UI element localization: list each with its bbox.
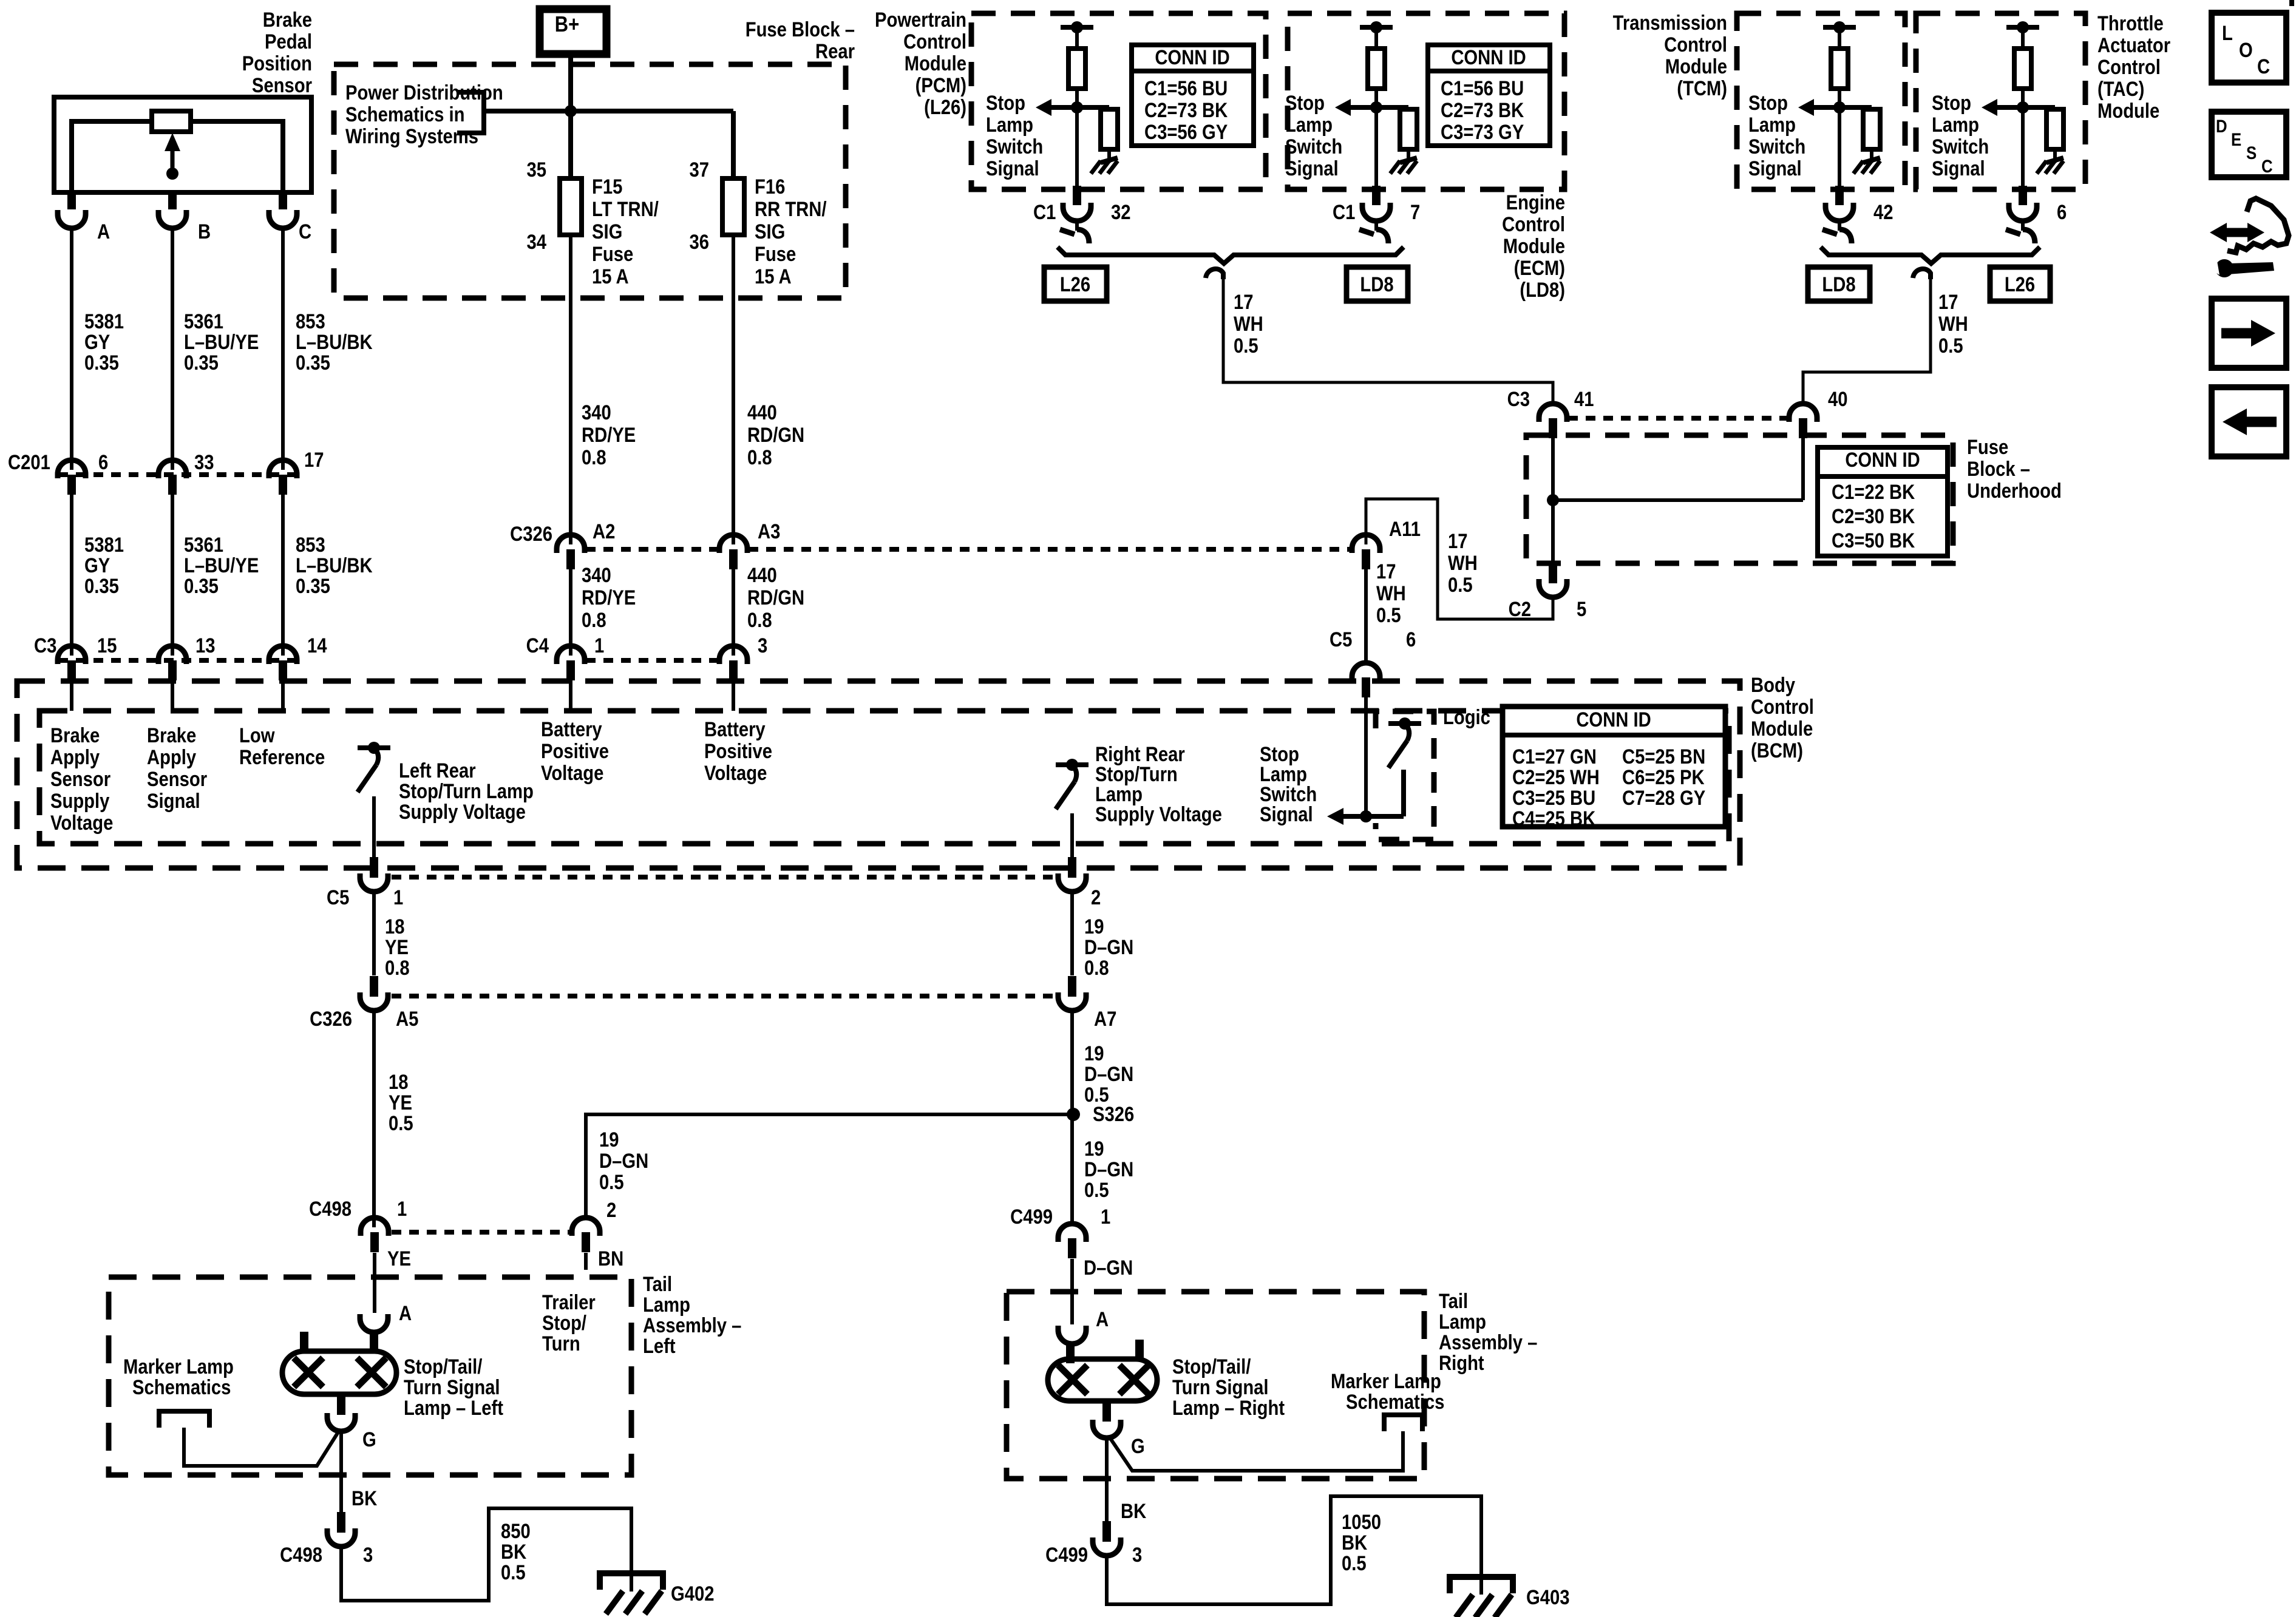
wire YE <box>373 1253 376 1313</box>
marker lamp bracket left <box>159 1411 209 1428</box>
wire 19 D-GN 0.8 <box>1070 890 1074 975</box>
svg-text:2: 2 <box>1091 886 1101 909</box>
svg-text:35: 35 <box>526 158 546 181</box>
PCM dashed box <box>971 13 1266 189</box>
svg-text:Lamp: Lamp <box>1748 113 1796 137</box>
svg-text:C499: C499 <box>1045 1543 1088 1567</box>
svg-text:Voltage: Voltage <box>541 761 603 785</box>
wire 18 YE 0.5 <box>372 1009 376 1227</box>
svg-text:L–BU/YE: L–BU/YE <box>184 330 259 354</box>
svg-text:Left Rear: Left Rear <box>399 759 476 782</box>
svg-text:Sensor: Sensor <box>50 767 110 791</box>
svg-text:Lamp – Right: Lamp – Right <box>1172 1396 1285 1420</box>
svg-text:18: 18 <box>385 915 405 938</box>
svg-text:(TAC): (TAC) <box>2097 77 2144 101</box>
svg-text:Rear: Rear <box>815 39 855 63</box>
wire to C2 pin5 <box>1551 500 1555 564</box>
svg-text:C326: C326 <box>310 1007 352 1031</box>
BCM right switch lead <box>1070 813 1074 858</box>
BCM inner dashed box <box>39 711 1729 844</box>
svg-text:CONN ID: CONN ID <box>1451 46 1526 69</box>
svg-text:19: 19 <box>1084 1137 1104 1161</box>
svg-text:853: 853 <box>296 533 325 557</box>
svg-text:Control: Control <box>1664 33 1727 56</box>
svg-text:17: 17 <box>1448 529 1468 553</box>
svg-text:C3=56 GY: C3=56 GY <box>1144 120 1228 144</box>
BCM outer dashed box <box>17 681 1740 868</box>
svg-text:Apply: Apply <box>50 745 100 769</box>
svg-text:Stop/Tail/: Stop/Tail/ <box>1172 1355 1251 1378</box>
svg-text:B+: B+ <box>555 13 579 37</box>
right arrow icon box <box>2212 299 2286 368</box>
fuse block rear dashed box <box>334 64 846 298</box>
svg-text:Signal: Signal <box>1932 157 1985 180</box>
svg-text:BK: BK <box>501 1540 526 1564</box>
svg-text:Fuse Block –: Fuse Block – <box>746 18 855 41</box>
svg-text:Reference: Reference <box>239 745 325 769</box>
svg-text:3: 3 <box>363 1543 373 1567</box>
splice S326 <box>1067 1108 1080 1121</box>
svg-text:Assembly –: Assembly – <box>1439 1331 1537 1354</box>
svg-text:7: 7 <box>1410 200 1420 224</box>
C326 pin A3 connector <box>719 535 747 553</box>
svg-text:5361: 5361 <box>184 533 223 557</box>
svg-text:Module: Module <box>1665 55 1727 78</box>
svg-text:Position: Position <box>242 52 312 75</box>
BCM left rear lamp driver switch <box>358 745 390 750</box>
svg-text:32: 32 <box>1111 200 1131 224</box>
svg-text:Throttle: Throttle <box>2097 12 2164 35</box>
tail lamp assembly right dashed box <box>1007 1292 1424 1479</box>
svg-text:C498: C498 <box>280 1543 322 1567</box>
lamp A cup right <box>1058 1326 1086 1344</box>
svg-text:440: 440 <box>747 563 777 587</box>
svg-text:C3: C3 <box>34 634 56 657</box>
svg-text:Fuse: Fuse <box>592 242 633 266</box>
svg-text:Engine: Engine <box>1506 191 1565 214</box>
svg-text:L26: L26 <box>2005 273 2035 296</box>
svg-text:Positive: Positive <box>704 739 772 763</box>
svg-text:A: A <box>97 220 110 243</box>
svg-text:C7=28 GY: C7=28 GY <box>1622 786 1705 810</box>
wire 5381 lower <box>70 495 73 656</box>
wire D-GN <box>1070 1259 1074 1324</box>
svg-text:5381: 5381 <box>84 310 124 333</box>
svg-text:36: 36 <box>689 230 709 254</box>
svg-text:A: A <box>399 1301 412 1325</box>
svg-text:Brake: Brake <box>263 8 312 32</box>
C3 pin 15 connector <box>58 646 86 664</box>
svg-text:C6=25 PK: C6=25 PK <box>1622 765 1705 789</box>
svg-text:L: L <box>2222 21 2233 45</box>
svg-text:Apply: Apply <box>147 745 197 769</box>
wiper arrow <box>165 133 180 151</box>
svg-text:C1=27 GN: C1=27 GN <box>1512 745 1597 768</box>
svg-text:Low: Low <box>239 724 275 747</box>
svg-text:C1=56 BU: C1=56 BU <box>1441 76 1524 100</box>
C4 pin 1 connector <box>557 646 585 664</box>
svg-text:Stop: Stop <box>1748 91 1788 115</box>
stop/tail/turn lamp right <box>1048 1359 1157 1401</box>
svg-text:RD/YE: RD/YE <box>582 423 636 447</box>
wire pin41 down <box>1551 438 1555 500</box>
svg-text:Turn Signal: Turn Signal <box>1172 1375 1269 1399</box>
svg-text:Module: Module <box>1751 717 1813 741</box>
svg-text:2: 2 <box>606 1198 616 1222</box>
svg-text:5: 5 <box>1577 597 1586 621</box>
svg-text:RD/YE: RD/YE <box>582 586 636 609</box>
svg-text:Block –: Block – <box>1967 457 2030 481</box>
svg-text:Module: Module <box>2097 99 2159 123</box>
svg-text:(TCM): (TCM) <box>1677 76 1727 100</box>
tail lamp assembly left dashed box <box>109 1277 631 1475</box>
svg-text:Lamp: Lamp <box>1932 113 1979 137</box>
C498 pin 2 connector <box>572 1218 600 1236</box>
svg-text:BK: BK <box>352 1486 377 1510</box>
svg-text:G: G <box>1131 1434 1145 1458</box>
TCM dashed box <box>1737 13 1905 189</box>
svg-text:15 A: 15 A <box>592 265 629 288</box>
svg-text:Supply Voltage: Supply Voltage <box>399 800 526 824</box>
svg-text:C: C <box>299 220 311 243</box>
C201 dashed line <box>58 472 299 477</box>
fuse F16 <box>722 178 744 235</box>
wire batt2 into BCM <box>732 680 735 711</box>
svg-text:WH: WH <box>1376 581 1406 605</box>
lamp right X2 <box>1119 1365 1149 1394</box>
svg-text:LD8: LD8 <box>1822 273 1855 296</box>
C2 pin 5 connector <box>1549 563 1557 583</box>
svg-text:Voltage: Voltage <box>50 811 113 835</box>
svg-text:0.8: 0.8 <box>385 956 410 980</box>
lamp left second pin <box>300 1332 308 1352</box>
BCM CONN ID table <box>1503 707 1725 827</box>
left arrow icon box <box>2212 387 2286 456</box>
svg-text:C3=50 BK: C3=50 BK <box>1832 529 1915 552</box>
svg-text:C498: C498 <box>309 1197 352 1221</box>
svg-text:E: E <box>2231 129 2241 149</box>
svg-text:Voltage: Voltage <box>704 761 767 785</box>
svg-text:17: 17 <box>1938 290 1958 314</box>
svg-text:1050: 1050 <box>1342 1510 1381 1534</box>
svg-text:340: 340 <box>582 401 611 424</box>
svg-text:Stop: Stop <box>986 91 1025 115</box>
svg-text:Left: Left <box>643 1334 676 1358</box>
svg-text:BN: BN <box>598 1247 623 1270</box>
svg-text:3: 3 <box>758 634 767 657</box>
svg-text:WH: WH <box>1234 312 1263 336</box>
svg-text:1: 1 <box>393 886 403 909</box>
svg-text:YE: YE <box>389 1091 412 1114</box>
svg-text:(PCM): (PCM) <box>915 73 966 97</box>
C201 pin 33 connector <box>158 460 186 478</box>
svg-text:Lamp: Lamp <box>986 113 1033 137</box>
svg-text:L–BU/YE: L–BU/YE <box>184 554 259 577</box>
svg-text:Assembly –: Assembly – <box>643 1314 741 1337</box>
DESC icon box <box>2212 112 2286 177</box>
svg-text:YE: YE <box>385 935 409 959</box>
svg-text:0.8: 0.8 <box>582 446 606 469</box>
svg-text:3: 3 <box>1132 1543 1142 1567</box>
svg-text:C2=73 BK: C2=73 BK <box>1441 98 1524 122</box>
C3 pin 13 connector <box>158 646 186 664</box>
svg-text:L26: L26 <box>1060 273 1090 296</box>
svg-text:17: 17 <box>1376 560 1396 583</box>
BCM right rear lamp driver switch <box>1056 762 1089 767</box>
lamp right X1 <box>1058 1365 1087 1394</box>
LD8 box right <box>1808 267 1870 301</box>
svg-text:C2=30 BK: C2=30 BK <box>1832 504 1915 528</box>
svg-text:Body: Body <box>1751 673 1795 697</box>
wire 18 YE 0.8 <box>372 890 376 975</box>
svg-text:Signal: Signal <box>1260 802 1313 826</box>
sensor pin A cup <box>58 210 86 228</box>
svg-text:853: 853 <box>296 310 325 333</box>
wire 853 upper <box>281 227 285 470</box>
svg-text:D–GN: D–GN <box>599 1149 648 1173</box>
svg-text:0.5: 0.5 <box>389 1111 413 1135</box>
wire S326 to trailer <box>586 1114 1073 1219</box>
wire 853 lower <box>281 495 285 656</box>
svg-text:Stop/Turn Lamp: Stop/Turn Lamp <box>399 779 534 803</box>
svg-text:CONN ID: CONN ID <box>1576 708 1651 731</box>
ground G402 <box>597 1570 666 1576</box>
svg-text:C2=73 BK: C2=73 BK <box>1144 98 1228 122</box>
C326 dotted line A5-A7 <box>392 994 1056 998</box>
svg-text:C2: C2 <box>1509 597 1531 621</box>
TCM-TAC brace <box>1821 247 2040 263</box>
svg-text:Right: Right <box>1439 1351 1484 1375</box>
right arrow icon <box>2221 328 2254 339</box>
ECM CONN ID table <box>1428 45 1550 146</box>
hand outline <box>2227 198 2289 253</box>
wire 1050 BK 0.5 <box>1107 1496 1481 1604</box>
svg-text:37: 37 <box>689 158 709 181</box>
svg-text:Control: Control <box>1502 212 1565 236</box>
power distribution bracket <box>457 92 484 133</box>
svg-text:C3=73 GY: C3=73 GY <box>1441 120 1524 144</box>
svg-text:C1: C1 <box>1333 200 1355 224</box>
junction dot B+ <box>565 105 577 117</box>
svg-text:0.35: 0.35 <box>296 351 330 375</box>
lamp right second pin <box>1135 1340 1144 1360</box>
svg-text:42: 42 <box>1873 200 1894 224</box>
wire C2-5 to A11 <box>1366 499 1553 619</box>
wire 340 upper <box>569 235 572 544</box>
svg-text:A5: A5 <box>396 1007 418 1031</box>
svg-text:Stop: Stop <box>1285 91 1325 115</box>
wire 5361 upper <box>171 227 174 470</box>
svg-text:Logic: Logic <box>1443 705 1490 729</box>
wire 19 D-GN 0.5 upper <box>1070 1009 1074 1224</box>
LD8 box left <box>1347 267 1408 301</box>
svg-text:Powertrain: Powertrain <box>875 8 966 32</box>
svg-text:0.5: 0.5 <box>1376 603 1401 627</box>
svg-text:SIG: SIG <box>755 220 785 243</box>
svg-text:O: O <box>2239 38 2253 62</box>
svg-text:15 A: 15 A <box>755 265 792 288</box>
svg-text:S326: S326 <box>1093 1102 1134 1126</box>
wire C5-6 into BCM <box>1364 697 1368 816</box>
svg-text:850: 850 <box>501 1519 531 1543</box>
svg-text:G403: G403 <box>1526 1585 1569 1609</box>
C201 pin 6 connector <box>58 460 86 478</box>
svg-text:C1=22 BK: C1=22 BK <box>1832 480 1915 504</box>
svg-text:Actuator: Actuator <box>2097 33 2170 57</box>
junction dot underhood <box>1547 494 1559 506</box>
underhood CONN ID table <box>1818 447 1948 556</box>
wire BN <box>584 1253 588 1270</box>
svg-text:Schematics: Schematics <box>132 1375 231 1399</box>
svg-text:Trailer: Trailer <box>542 1290 596 1314</box>
svg-text:Stop: Stop <box>1932 91 1971 115</box>
PCM CONN ID table <box>1132 45 1254 146</box>
svg-text:C201: C201 <box>8 450 50 474</box>
svg-text:YE: YE <box>387 1247 411 1270</box>
svg-text:440: 440 <box>747 401 777 424</box>
svg-text:F16: F16 <box>755 175 785 198</box>
sensor pin C cup <box>269 210 297 228</box>
svg-text:Fuse: Fuse <box>1967 435 2008 459</box>
C3 dotted line 41-40 <box>1568 416 1788 421</box>
svg-text:Switch: Switch <box>986 135 1043 158</box>
svg-text:A2: A2 <box>593 520 615 543</box>
lamp left X1 <box>294 1358 323 1387</box>
svg-text:A11: A11 <box>1389 517 1421 541</box>
Fuse Block - Underhood dashed box <box>1526 435 1953 563</box>
svg-text:Sensor: Sensor <box>147 767 207 791</box>
svg-text:C1=56 BU: C1=56 BU <box>1144 76 1228 100</box>
svg-text:Turn: Turn <box>542 1332 580 1355</box>
svg-text:L–BU/BK: L–BU/BK <box>296 330 373 354</box>
svg-text:Lamp: Lamp <box>643 1293 690 1317</box>
hand double arrow <box>2219 228 2255 237</box>
stop/tail/turn lamp left <box>282 1351 396 1394</box>
wire bracket to fuses <box>484 109 733 114</box>
LOC icon box <box>2212 13 2286 83</box>
PCM stop lamp switch signal circuit <box>1061 25 1093 30</box>
svg-text:D–GN: D–GN <box>1084 1256 1133 1280</box>
svg-text:0.5: 0.5 <box>599 1170 624 1194</box>
potentiometer track <box>72 121 283 192</box>
wire BK left <box>339 1430 343 1512</box>
lamp G pin right <box>1102 1401 1111 1422</box>
svg-text:41: 41 <box>1574 387 1594 411</box>
TAC stop lamp switch signal circuit <box>2006 25 2039 30</box>
svg-text:5381: 5381 <box>84 533 124 557</box>
svg-text:340: 340 <box>582 563 611 587</box>
wire 5361 lower <box>171 495 174 656</box>
wire 5381 upper <box>70 227 73 470</box>
wire BK right <box>1105 1437 1109 1521</box>
svg-text:0.5: 0.5 <box>501 1561 526 1584</box>
svg-text:Control: Control <box>903 30 966 53</box>
svg-text:Schematics in: Schematics in <box>345 103 465 126</box>
svg-text:(BCM): (BCM) <box>1751 739 1803 762</box>
svg-text:(ECM): (ECM) <box>1514 256 1565 280</box>
TCM stop lamp switch signal circuit <box>1823 25 1856 30</box>
svg-text:B: B <box>198 220 211 243</box>
svg-text:Module: Module <box>905 52 966 75</box>
svg-text:WH: WH <box>1938 312 1968 336</box>
svg-text:SIG: SIG <box>592 220 622 243</box>
svg-text:Transmission: Transmission <box>1613 11 1727 35</box>
svg-text:Switch: Switch <box>1748 135 1805 158</box>
wire marker branch right <box>1109 1431 1403 1471</box>
svg-text:S: S <box>2246 143 2257 163</box>
svg-text:GY: GY <box>84 330 110 354</box>
svg-text:CONN ID: CONN ID <box>1845 448 1920 472</box>
C4 pin 3 connector <box>719 646 747 664</box>
svg-text:0.8: 0.8 <box>582 608 606 632</box>
svg-text:18: 18 <box>389 1070 409 1094</box>
wire B+ down <box>568 54 573 180</box>
svg-text:C3=25 BU: C3=25 BU <box>1512 786 1595 810</box>
wire to F16 <box>731 111 736 180</box>
svg-text:Sensor: Sensor <box>252 73 312 97</box>
svg-text:1: 1 <box>594 634 604 657</box>
svg-text:A3: A3 <box>758 520 780 543</box>
left arrow icon <box>2244 417 2277 427</box>
svg-text:BK: BK <box>1342 1531 1367 1554</box>
svg-text:Lamp – Left: Lamp – Left <box>404 1396 503 1420</box>
svg-text:RR TRN/: RR TRN/ <box>755 197 827 221</box>
C498 pin 1 connector <box>361 1218 389 1236</box>
wrench icon <box>2215 259 2233 277</box>
sensor pin B stub <box>168 192 177 209</box>
svg-text:Supply: Supply <box>50 789 110 813</box>
lamp G pin left <box>337 1394 345 1415</box>
svg-text:0.5: 0.5 <box>1234 334 1258 358</box>
marker lamp bracket right <box>1384 1415 1422 1431</box>
ground G403 <box>1447 1574 1516 1580</box>
lamp A cup left <box>360 1314 388 1332</box>
wire 13 into BCM <box>171 680 174 711</box>
svg-text:C5: C5 <box>1330 628 1352 651</box>
svg-text:0.35: 0.35 <box>296 574 330 598</box>
sensor pin C stub <box>279 192 287 209</box>
svg-text:Lamp: Lamp <box>1439 1310 1486 1334</box>
svg-text:RD/GN: RD/GN <box>747 586 804 609</box>
svg-text:G402: G402 <box>671 1582 714 1605</box>
svg-text:Control: Control <box>1751 695 1814 719</box>
svg-text:LD8: LD8 <box>1360 273 1393 296</box>
wire 15 into BCM <box>70 680 73 711</box>
svg-text:0.35: 0.35 <box>84 574 119 598</box>
svg-text:C4=25 BK: C4=25 BK <box>1512 807 1595 830</box>
lamp G cup left <box>327 1413 355 1431</box>
svg-text:BK: BK <box>1121 1499 1146 1523</box>
svg-text:Signal: Signal <box>1748 157 1802 180</box>
C4 dotted line <box>586 658 719 663</box>
svg-text:Battery: Battery <box>541 717 602 741</box>
logic switch lead <box>1401 770 1406 816</box>
ECM stop lamp switch signal circuit <box>1360 25 1393 30</box>
svg-text:0.5: 0.5 <box>1084 1178 1109 1202</box>
sensor pin A stub <box>67 192 76 209</box>
junction dot logic <box>1360 810 1372 822</box>
page artifact mark <box>2289 0 2294 6</box>
L26 box right <box>1990 267 2050 301</box>
svg-text:G: G <box>362 1428 376 1451</box>
C326 dotted line A2-A3 <box>586 547 719 552</box>
svg-text:Marker Lamp: Marker Lamp <box>123 1355 234 1378</box>
svg-text:CONN ID: CONN ID <box>1155 46 1229 69</box>
lamp G cup right <box>1093 1420 1121 1438</box>
fuse F15 <box>560 178 582 235</box>
svg-text:0.5: 0.5 <box>1938 334 1963 358</box>
C326 pin A7 connector <box>1068 976 1076 997</box>
